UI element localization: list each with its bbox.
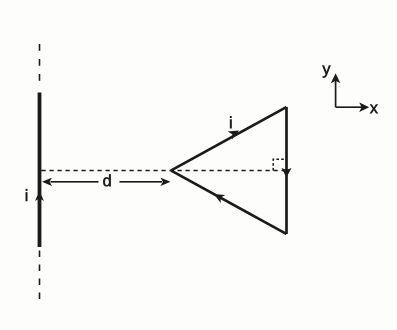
current arrow on right edge (pointing down): [282, 168, 292, 178]
dimension arrow d (right half, arrowhead at apex): [120, 178, 171, 186]
label i (current in triangular loop): [230, 116, 231, 128]
wire W1 dashed extension (top): [39, 44, 41, 87]
label d (distance): [103, 174, 110, 186]
coordinate axes: y axis: [331, 73, 341, 107]
triangular current loop: bottom edge (bottom-right to apex): [171, 171, 287, 235]
label i (current in straight wire): [26, 189, 27, 201]
label y (axis): [322, 66, 330, 78]
current arrow on wire W1 (pointing up): [35, 191, 44, 202]
long straight wire W1 (solid segment): [38, 93, 42, 248]
right-angle dashed marker at right edge: [273, 159, 285, 170]
wire W1 dashed extension (bottom): [39, 251, 41, 304]
dashed construction line (wire to triangle right side): [42, 170, 287, 172]
triangular current loop: top edge (apex to top-right): [171, 107, 287, 171]
current arrow on bottom edge (toward apex): [214, 194, 225, 203]
coordinate axes: x axis: [336, 102, 370, 112]
label x (axis): [370, 105, 378, 114]
dimension arrow d (left half, arrowhead at wire): [42, 178, 99, 186]
current arrow on top edge (toward top-right): [228, 131, 239, 140]
triangular current loop: right edge (vertical): [285, 107, 288, 234]
